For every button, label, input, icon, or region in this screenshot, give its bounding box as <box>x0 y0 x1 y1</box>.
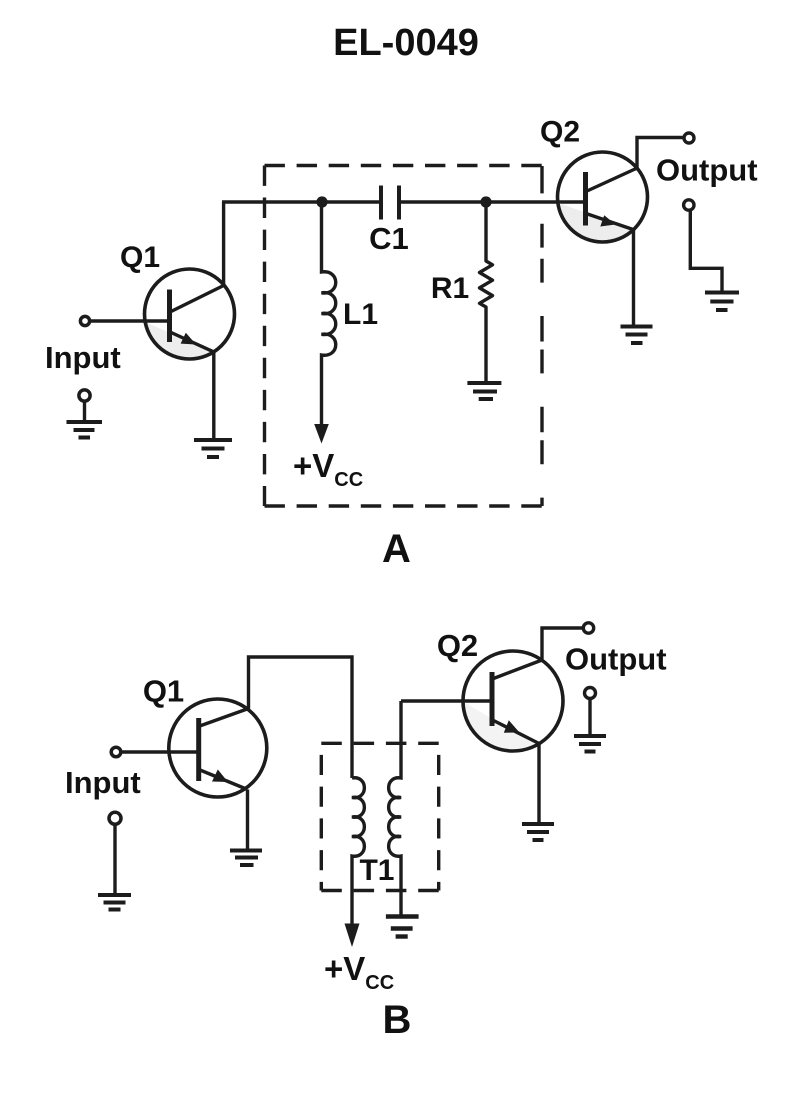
transistor Q2 (B) base bar <box>490 672 495 726</box>
ground R1 <box>467 383 501 399</box>
transistor Q1 (B) circle <box>169 699 267 797</box>
terminal output A <box>684 133 694 143</box>
terminal input A <box>80 316 89 325</box>
svg-text:L1: L1 <box>343 298 378 331</box>
ground Q1B emitter <box>230 851 262 866</box>
transistor Q1 (B) emitter arrow <box>212 770 228 783</box>
wire input base A <box>90 319 170 322</box>
svg-text:Q1: Q1 <box>143 674 184 709</box>
svg-text:C1: C1 <box>369 221 409 256</box>
ground output stub B <box>574 736 606 752</box>
transistor Q2 (B) emitter arrow <box>504 720 520 733</box>
transistor Q2 (B) shading <box>463 702 536 751</box>
wire main horizontal right segment <box>399 200 586 203</box>
wire Q2B emitter down <box>537 744 540 825</box>
wire Q1A emitter down <box>212 352 215 440</box>
transistor Q2 (A) emitter arrow <box>600 215 615 226</box>
transistor Q1 (B) collector diagonal <box>200 709 249 727</box>
transistor Q1 (B) base bar <box>196 718 201 781</box>
transistor Q2 (B) collector diagonal <box>494 660 543 679</box>
node junction dot left <box>316 196 327 207</box>
svg-text:+VCC: +VCC <box>324 950 394 994</box>
ground input stub B <box>98 895 131 910</box>
transistor Q2 (A) base bar <box>583 172 588 226</box>
wire Q1B emitter down <box>246 790 249 851</box>
wire Q2A emitter down <box>632 230 635 327</box>
transistor Q1 (A) emitter arrow <box>181 333 197 345</box>
transistor Q1 (A) circle <box>145 269 235 359</box>
svg-text:T1: T1 <box>359 854 394 887</box>
svg-text:A: A <box>382 527 411 571</box>
svg-text:Q1: Q1 <box>120 241 160 274</box>
terminal output stub A <box>684 200 694 210</box>
svg-text:R1: R1 <box>431 272 469 305</box>
svg-text:Input: Input <box>45 340 121 375</box>
transformer T1 primary coil <box>352 778 364 924</box>
ground input stub A <box>67 422 103 438</box>
ground Q2B emitter <box>522 824 554 840</box>
ground T1 secondary <box>386 917 419 937</box>
transistor Q1 (A) emitter diagonal <box>170 332 214 352</box>
svg-text:Output: Output <box>565 642 667 677</box>
inductor L1 <box>322 202 336 425</box>
ground Q2A emitter <box>621 327 653 344</box>
terminal input B <box>111 747 121 757</box>
svg-text:Output: Output <box>656 153 758 188</box>
wire input stub A <box>83 402 86 422</box>
transistor Q2 (A) emitter diagonal <box>586 214 634 230</box>
transistor Q1 (A) collector diagonal <box>171 286 224 312</box>
transistor Q1 (A) shading <box>145 322 214 359</box>
arrow +Vcc B <box>345 924 360 948</box>
terminal output stub B <box>585 688 596 699</box>
transistor Q2 (A) shading <box>559 203 634 241</box>
transistor Q2 (A) collector diagonal <box>587 168 637 191</box>
terminal input stub B <box>109 812 121 824</box>
transistor Q2 (B) circle <box>463 651 563 751</box>
wire Q2A collector up <box>637 138 683 169</box>
svg-text:B: B <box>383 998 412 1042</box>
transistor Q2 (A) circle <box>558 152 648 242</box>
wire output stub B <box>588 700 591 737</box>
ground output stub A <box>705 293 739 311</box>
dashed box A <box>265 166 543 507</box>
wire Q1B collector to transformer <box>249 657 353 778</box>
node junction dot right <box>480 196 491 207</box>
resistor R1 <box>480 202 493 383</box>
wire input stub B <box>113 825 116 896</box>
ground Q1A emitter <box>194 440 232 457</box>
transistor Q1 (A) base bar <box>167 290 172 343</box>
wire output stub A <box>690 211 722 293</box>
terminal input stub A <box>79 390 90 401</box>
transistor Q2 (B) emitter diagonal <box>494 721 540 744</box>
arrow +Vcc A <box>314 424 329 444</box>
svg-text:Q2: Q2 <box>540 116 580 149</box>
transformer T1 dashed box <box>321 743 438 890</box>
capacitor C1 plates <box>381 186 399 220</box>
wire Q2B collector up <box>542 628 583 660</box>
wire Q1A collector up <box>222 202 225 286</box>
transformer T1 secondary coil <box>389 701 401 917</box>
wire Q2B base <box>401 699 492 702</box>
svg-text:EL-0049: EL-0049 <box>333 22 479 64</box>
terminal output B <box>583 623 593 633</box>
svg-text:Q2: Q2 <box>437 628 478 663</box>
svg-text:Input: Input <box>65 765 141 800</box>
wire main horizontal left segment <box>222 200 381 203</box>
wire input base B <box>122 750 197 753</box>
svg-text:+VCC: +VCC <box>293 447 363 491</box>
transistor Q1 (B) emitter diagonal <box>200 770 248 790</box>
